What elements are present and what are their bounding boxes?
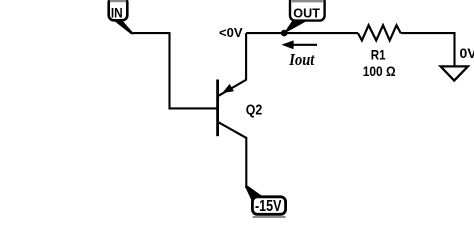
transistor Q2 emitter wire (top, to OUT node) bbox=[218, 33, 247, 96]
node -15V label box bbox=[252, 197, 285, 218]
svg-text:100 Ω: 100 Ω bbox=[363, 63, 396, 79]
wire from Q2 emitter node to resistor R1 bbox=[246, 32, 358, 34]
node IN label box bbox=[109, 0, 128, 20]
transistor Q2 collector wire (bottom, to -15V) bbox=[218, 122, 247, 188]
wire from IN to Q2 base bbox=[133, 33, 217, 108]
svg-text:OUT: OUT bbox=[293, 5, 320, 20]
svg-text:Iout: Iout bbox=[288, 50, 314, 69]
svg-text:Q2: Q2 bbox=[246, 102, 262, 118]
svg-text:0V: 0V bbox=[460, 45, 474, 61]
node IN pointer tail bbox=[111, 18, 135, 34]
transistor Q2 base bar bbox=[216, 80, 219, 137]
ground symbol bbox=[441, 66, 468, 80]
junction dot at OUT node bbox=[281, 30, 288, 37]
node -15V pointer tail bbox=[245, 186, 262, 201]
transistor Q2 emitter arrowhead bbox=[222, 84, 234, 93]
node OUT label box bbox=[290, 0, 325, 21]
svg-text:IN: IN bbox=[111, 5, 123, 20]
svg-text:<0V: <0V bbox=[219, 25, 243, 40]
resistor R1 zigzag bbox=[358, 25, 401, 40]
svg-text:-15V: -15V bbox=[255, 198, 282, 215]
wire from R1 to ground bbox=[401, 33, 455, 66]
node OUT pointer tail bbox=[283, 21, 305, 34]
svg-text:R1: R1 bbox=[371, 46, 386, 62]
Iout current arrow bbox=[281, 40, 317, 49]
